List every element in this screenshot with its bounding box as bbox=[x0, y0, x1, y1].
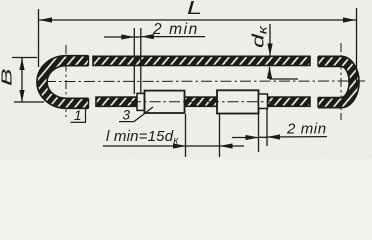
dimension 2min bottom extension line 1 bbox=[258, 110, 260, 152]
dimension 2min bottom left arrow with tail bbox=[232, 137, 259, 139]
insulator block 1 body bbox=[145, 91, 185, 113]
node right bend axis (vertical dash-dot) bbox=[340, 43, 342, 120]
dimension B extension line bottom bbox=[14, 101, 44, 103]
dimension l min=15dk line with left tail bbox=[103, 145, 186, 147]
dimension l min extension line 1 bbox=[185, 114, 187, 157]
dimension 2min bottom segment bbox=[259, 136, 268, 138]
dimension L extension line right bbox=[356, 8, 358, 84]
node left bend axis (vertical dash-dot) bbox=[65, 45, 67, 117]
wire tube top run (hatched sheath) bbox=[93, 56, 310, 65]
dimension dk down arrow bbox=[269, 24, 271, 56]
wire tube bottom run segment left bbox=[96, 97, 137, 106]
paper noise overlay bbox=[0, 0, 372, 159]
dimension L arrow left bbox=[39, 17, 52, 22]
dimension L arrow right bbox=[343, 17, 356, 22]
dimension dk up arrow with tail bbox=[269, 67, 271, 79]
dimension 2min top extension line 2 bbox=[140, 28, 142, 94]
dimension B arrow down bbox=[19, 90, 24, 102]
dimension 2min bottom extension line 2 bbox=[266, 109, 268, 147]
dimension 2min top left arrow line bbox=[104, 36, 134, 38]
U-bend left (hatched annulus with arm stubs) bbox=[37, 56, 89, 109]
dimension B line bbox=[21, 58, 23, 102]
node bottom-run axis (dash-dot through insulators) bbox=[128, 101, 272, 103]
insulator block 2 body bbox=[217, 90, 259, 113]
dimension B arrow up bbox=[19, 58, 24, 70]
dimension 2min top extension line 1 bbox=[133, 28, 135, 94]
dimension 2min top right arrow with tail bbox=[141, 36, 205, 38]
wire tube bottom run segment right bbox=[268, 97, 311, 106]
insulator block 1 neck bbox=[137, 93, 145, 110]
dimension B extension line top bbox=[12, 57, 37, 59]
U-bend right (hatched annulus with arm stubs) bbox=[318, 56, 359, 107]
dimension L line bbox=[39, 19, 356, 21]
insulator block 2 neck bbox=[259, 94, 268, 109]
dimension L extension line left bbox=[38, 9, 40, 67]
dimension 2min top segment bbox=[135, 36, 141, 38]
node axis overdraw through insulators bbox=[130, 101, 270, 103]
node main axis (dash-dot centerline of element) bbox=[45, 43, 365, 120]
dimension 2min bottom right arrow with tail bbox=[267, 136, 327, 138]
dimension l min extension line 2 bbox=[219, 114, 221, 157]
wire tube bottom run segment middle bbox=[185, 97, 218, 106]
